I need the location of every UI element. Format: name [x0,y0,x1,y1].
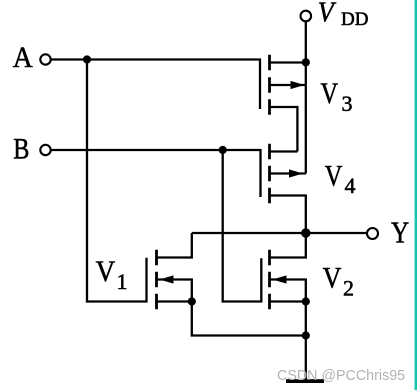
V3 drain lead [270,107,298,152]
wire B branch to V2 gate [223,150,262,302]
node V1 source junction [188,297,196,305]
wire V1 source to ground rail [192,302,306,336]
V1 channel segments [155,250,158,310]
svg-text:3: 3 [342,91,353,116]
V3 channel segments [268,55,271,115]
svg-text:CSDN @PCChris95: CSDN @PCChris95 [277,368,405,384]
node B junction [219,146,227,154]
V1 bulk lead with arrow [157,280,192,302]
svg-text:V: V [318,0,337,29]
V2 bulk lead with arrow [270,280,306,302]
node V2 source junction [302,297,310,305]
V4 source lead [270,150,298,152]
svg-text:4: 4 [345,173,356,198]
node A junction [83,55,91,63]
wire VDD rail [305,21,307,173]
watermark teal edge line [414,0,417,390]
wire B to V4 gate [51,150,261,197]
V2 channel segments [268,250,271,310]
node VDD / V3 source junction [302,58,310,66]
V2 drain lead [270,233,306,258]
V4 bulk lead with arrow [270,172,306,174]
V3 source lead [270,61,306,63]
transistor V4 (PMOS) [270,144,306,233]
svg-text:Y: Y [391,214,409,249]
ground symbol [286,379,324,383]
node ground rail junction [302,331,310,339]
svg-text:V: V [323,262,342,295]
power terminal VDD [301,11,312,22]
svg-text:2: 2 [343,276,354,301]
V3 bulk lead with arrow [270,84,306,86]
V2 source lead [270,300,306,302]
V4 channel segments [268,144,271,204]
svg-text:A: A [13,41,33,74]
wire Y dot to terminal [306,232,367,234]
input terminal A [40,54,50,64]
V4 drain lead [270,196,306,234]
output terminal Y [367,228,378,239]
svg-text:1: 1 [117,269,128,294]
transistor V2 (NMOS) [270,233,306,309]
wire Y node line [192,232,306,234]
V1 drain lead [157,233,192,258]
transistor V1 (NMOS) [157,233,192,309]
V1 source lead [157,300,192,302]
svg-text:B: B [13,132,29,165]
svg-text:V: V [325,159,343,192]
svg-text:V: V [321,77,339,110]
wire A to V3 gate [51,60,260,110]
wire A branch to V1 gate [87,60,147,302]
svg-text:V: V [96,255,116,288]
input terminal B [40,145,50,155]
wire to ground [305,302,307,380]
transistor V3 (PMOS) [270,55,306,152]
output node Y junction [301,228,310,237]
svg-text:DD: DD [341,9,368,30]
